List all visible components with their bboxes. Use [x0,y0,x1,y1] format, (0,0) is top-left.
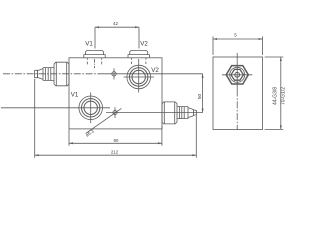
svg-text:90: 90 [114,138,119,143]
diagonal leader for orifice [86,108,122,133]
svg-text:5: 5 [234,32,237,37]
right fitting centerline [162,112,203,114]
side view hex fitting face-on [222,53,252,90]
port V1 top boss [84,51,105,69]
port V2 top boss [128,51,149,64]
centerline of left fitting / gauge port axis [3,73,104,75]
svg-text:V2: V2 [140,41,148,48]
svg-text:V1: V1 [71,92,79,99]
port V2 front circle [124,59,155,93]
left hose fitting on left face [35,62,69,86]
dimension 90 (block width) [69,126,162,146]
svg-text:42: 42 [113,21,118,26]
dimension 212 (overall length) [35,79,197,158]
svg-text:44-G3/8: 44-G3/8 [272,87,278,105]
orifice symbol on right fitting axis [106,107,162,118]
svg-text:50: 50 [197,94,203,100]
dimension 50 (V2 axis to fitting axis) [202,74,204,113]
side view block body [213,57,263,130]
side view vertical centerline [236,90,238,131]
svg-text:V1: V1 [85,41,93,48]
front view valve block body [69,58,162,129]
port V1 front circle [1,92,110,123]
svg-text:ø6.3: ø6.3 [85,128,96,137]
gauge port symbol (small crosshair) [112,68,116,79]
right hose fitting on right face [162,102,196,124]
svg-text:212: 212 [111,150,119,155]
dimension 45 (side width, top) [213,37,263,56]
svg-text:V2: V2 [151,67,159,74]
dimension with thread callouts (right of side view) [265,57,284,129]
svg-text:70-G1/2: 70-G1/2 [281,87,287,105]
dimension 42 between top ports [95,26,139,48]
